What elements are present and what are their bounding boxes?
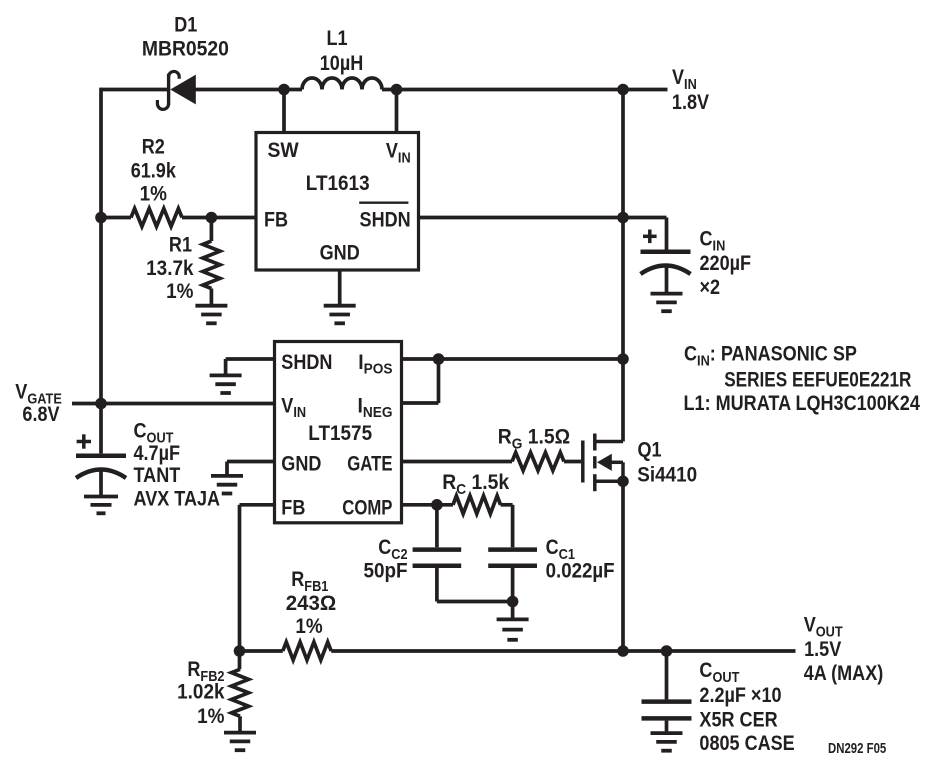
wire LT1613 GND pin stub — [338, 270, 342, 304]
wire RC to CC1 elbow — [501, 503, 513, 507]
svg-text:Q1: Q1 — [638, 438, 662, 462]
svg-text:R2: R2 — [142, 135, 165, 159]
svg-text:50pF: 50pF — [363, 559, 407, 582]
capacitor CC2 bottom plate — [413, 563, 462, 568]
wire CC2 bottom lead — [435, 568, 439, 602]
wire CIN top lead — [665, 218, 669, 250]
svg-text:CIN: CIN — [700, 227, 726, 253]
wire RFB2 top lead — [238, 651, 242, 669]
svg-text:L1: MURATA LQH3C100K24: L1: MURATA LQH3C100K24 — [684, 392, 920, 416]
capacitor COUT 2.2µF top plate — [642, 699, 692, 704]
wire COMP pin lead — [402, 503, 454, 507]
capacitor CC2 top plate — [413, 547, 462, 552]
svg-text:4A (MAX): 4A (MAX) — [804, 662, 884, 686]
wire left gate-supply rail — [99, 88, 103, 404]
svg-text:R1: R1 — [169, 233, 192, 257]
wire LT1575 GND pin lead — [227, 460, 275, 464]
svg-text:13.7k: 13.7k — [146, 257, 194, 280]
wire INEG pin lead — [402, 401, 439, 405]
svg-text:61.9k: 61.9k — [131, 159, 177, 183]
svg-text:Si4410: Si4410 — [637, 463, 697, 486]
svg-text:RC 1.5k: RC 1.5k — [442, 470, 509, 498]
ground below R1 — [195, 306, 227, 324]
diode D1 MBR0520 schottky — [157, 71, 195, 109]
svg-text:LT1575: LT1575 — [308, 422, 372, 445]
wire INEG to IPOS vertical — [437, 359, 441, 403]
svg-text:FB: FB — [264, 208, 288, 232]
capacitor CIN top plate — [641, 250, 691, 255]
resistor R1 13.7k — [203, 241, 220, 289]
wire COUT(2.2µF) bottom lead — [665, 721, 669, 732]
svg-text:IPOS: IPOS — [358, 350, 393, 378]
overline on SHDN — [359, 201, 408, 203]
svg-text:SHDN: SHDN — [360, 208, 411, 232]
node junction SW pin / L1 left — [278, 84, 290, 96]
capacitor COUT 4.7µF curved plate — [76, 470, 126, 479]
wire LT1575 FB pin lead — [240, 503, 275, 507]
ground below RFB2 — [224, 733, 256, 751]
svg-text:10µH: 10µH — [320, 52, 364, 76]
capacitor COUT 4.7µF top plate — [76, 454, 126, 459]
resistor R2 61.9k — [131, 209, 182, 227]
svg-text:VIN: VIN — [386, 139, 411, 165]
wire CIN bottom lead — [665, 267, 669, 292]
ground below COUT 4.7µF — [84, 497, 118, 514]
ground at LT1575 SHDN — [210, 375, 242, 393]
wire VGATE to LT1575 VIN pin — [72, 402, 275, 406]
ground below LT1613 — [324, 306, 356, 324]
ground at LT1575 GND — [211, 476, 243, 494]
wire IPOS pin to input rail — [402, 357, 624, 361]
node VOUT rail junction — [617, 645, 629, 657]
inductor L1 coil — [302, 78, 382, 90]
capacitor CC1 top plate — [488, 547, 537, 552]
svg-text:RG 1.5Ω: RG 1.5Ω — [498, 425, 570, 453]
wire CC1 bottom lead — [511, 568, 515, 602]
wire CC2 to CC1 bottom junction — [437, 600, 513, 604]
svg-text:D1: D1 — [174, 13, 197, 37]
svg-text:GND: GND — [320, 241, 360, 265]
svg-text:SHDN: SHDN — [281, 350, 332, 374]
svg-text:×2: ×2 — [700, 276, 721, 300]
svg-text:2.2µF ×10: 2.2µF ×10 — [699, 684, 781, 708]
svg-text:INEG: INEG — [358, 393, 393, 421]
capacitor CC1 bottom plate — [488, 563, 537, 568]
capacitor COUT 2.2µF bottom plate — [642, 716, 692, 721]
svg-text:COMP: COMP — [342, 497, 392, 520]
wire input rail lower segment — [621, 481, 625, 651]
node COMP junction — [431, 499, 443, 511]
node IPOS sense junction — [433, 353, 445, 365]
wire R2 to FB pin — [182, 216, 256, 220]
svg-text:GATE: GATE — [347, 453, 392, 476]
wire COUT(2.2µF) top lead — [665, 651, 669, 699]
svg-text:4.7µF: 4.7µF — [134, 442, 181, 466]
wire FB node to RFB1 — [240, 649, 283, 653]
svg-text:TANT: TANT — [134, 464, 181, 488]
resistor RFB2 1.02k — [231, 669, 248, 716]
wire L1 to input rail — [382, 88, 623, 92]
ground below compensation network — [497, 619, 529, 639]
node R2 left junction on left rail — [95, 212, 107, 224]
wire FB vertical — [238, 505, 242, 651]
transistor Q1 Si4410 NMOS — [583, 434, 623, 492]
wire LT1613 SHDN pin to input rail — [419, 216, 624, 220]
svg-text:LT1613: LT1613 — [306, 172, 370, 195]
wire COUT(4.7µF) top lead — [99, 404, 103, 454]
svg-text:SW: SW — [268, 138, 300, 162]
node SHDN/input-rail junction — [617, 212, 629, 224]
wire LT1575 GND stem — [225, 462, 229, 475]
wire LT1575 SHDN pin lead — [226, 357, 275, 361]
wire D1 anode to SW node — [195, 88, 302, 92]
resistor RFB1 243Ω — [283, 642, 331, 660]
wire R1 bottom lead — [210, 289, 214, 305]
svg-text:L1: L1 — [326, 27, 347, 51]
plus polarity mark CIN — [643, 230, 657, 244]
node Q1 source junction — [617, 476, 629, 488]
wire R1 top lead — [210, 218, 214, 242]
svg-text:1%: 1% — [140, 182, 167, 205]
svg-text:1%: 1% — [166, 280, 193, 303]
wire boost output rail to D1 cathode — [101, 88, 167, 92]
wire rail to CIN top — [623, 216, 667, 220]
svg-text:SERIES EEFUE0E221R: SERIES EEFUE0E221R — [724, 368, 911, 392]
node FB divider junction — [234, 645, 246, 657]
wire SW pin stub — [282, 90, 286, 135]
svg-text:6.8V: 6.8V — [22, 403, 60, 427]
svg-text:1%: 1% — [197, 705, 224, 728]
svg-text:GND: GND — [281, 452, 321, 476]
svg-text:243Ω: 243Ω — [286, 592, 336, 616]
svg-text:220µF: 220µF — [700, 252, 752, 276]
svg-text:VIN: VIN — [672, 66, 697, 92]
svg-text:COUT: COUT — [699, 659, 739, 685]
svg-text:VOUT: VOUT — [804, 613, 843, 639]
wire CC1 top lead — [511, 505, 515, 548]
node junction L1 right / LT1613 VIN pin — [391, 84, 403, 96]
wire RG to Q1 gate — [564, 460, 581, 464]
wire GATE pin to RG — [402, 460, 513, 464]
plus polarity mark COUT 4.7µF — [77, 434, 91, 448]
wire SHDN ground stem — [224, 359, 228, 374]
node FB/R1 junction — [206, 212, 218, 224]
wire VIN stub — [623, 88, 668, 92]
svg-text:1.8V: 1.8V — [672, 91, 710, 115]
op-amp/IC U2 LT1575 box — [275, 342, 402, 523]
resistor RC 1.5k — [453, 496, 501, 514]
svg-text:1.02k: 1.02k — [177, 680, 225, 703]
resistor RG 1.5Ω — [512, 453, 564, 471]
wire CC2 top lead — [435, 505, 439, 548]
svg-text:CC2: CC2 — [378, 536, 408, 562]
node COUT(2.2µF) junction — [661, 645, 673, 657]
svg-text:1.5V: 1.5V — [804, 638, 842, 662]
wire left rail to R2 — [101, 216, 131, 220]
svg-text:CC1: CC1 — [546, 536, 576, 562]
node IPOS rail junction — [617, 353, 629, 365]
svg-text:CIN: PANASONIC SP: CIN: PANASONIC SP — [684, 342, 857, 368]
wire COUT(4.7µF) bottom lead — [99, 471, 103, 495]
svg-text:VIN: VIN — [281, 394, 306, 420]
op-amp/IC U1 LT1613 box — [256, 133, 419, 271]
capacitor CIN curved plate — [641, 266, 691, 275]
svg-text:X5R CER: X5R CER — [699, 708, 777, 732]
wire RFB2 bottom lead — [238, 716, 242, 731]
svg-text:RFB1: RFB1 — [291, 568, 328, 594]
ground below CIN — [651, 294, 683, 312]
node VIN rail top junction — [617, 84, 629, 96]
wire RFB1 to VOUT rail — [331, 649, 795, 653]
wire compensation ground stem — [511, 602, 515, 618]
svg-text:0805 CASE: 0805 CASE — [699, 732, 794, 756]
svg-text:AVX TAJA: AVX TAJA — [134, 487, 221, 511]
svg-text:MBR0520: MBR0520 — [142, 37, 229, 61]
wire LT1613 VIN pin stub — [395, 90, 399, 135]
svg-text:0.022µF: 0.022µF — [546, 559, 615, 582]
node compensation ground junction — [507, 596, 519, 608]
svg-text:1%: 1% — [295, 615, 322, 638]
wire input rail upper segment — [621, 90, 625, 442]
svg-text:FB: FB — [281, 496, 305, 520]
svg-text:DN292 F05: DN292 F05 — [828, 739, 887, 756]
node VGATE junction — [95, 398, 107, 410]
ground below COUT 2.2µF — [651, 733, 683, 751]
